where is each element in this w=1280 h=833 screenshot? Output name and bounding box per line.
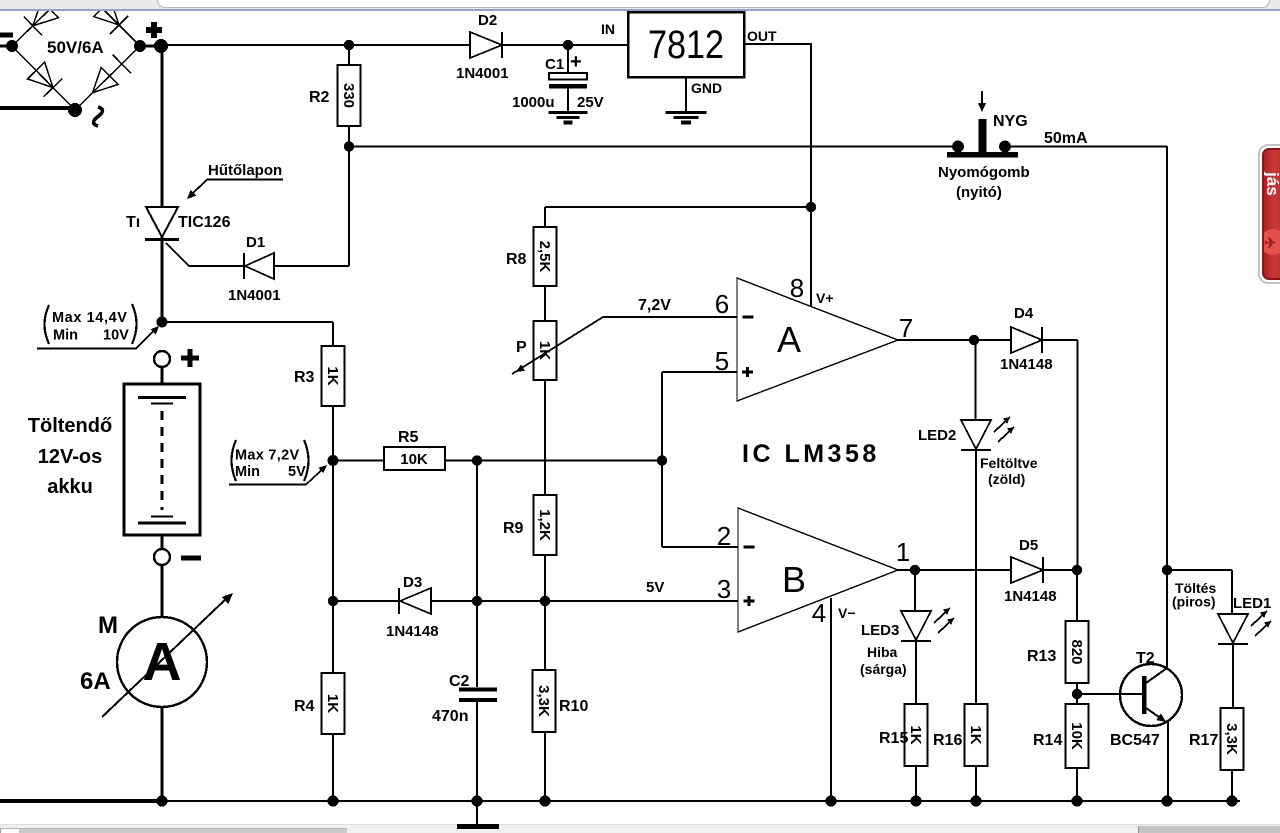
svg-text:C2: C2 [449,673,470,690]
svg-text:Töltendő: Töltendő [28,415,112,437]
svg-text:1N4148: 1N4148 [1004,588,1057,605]
svg-text:1K: 1K [324,366,341,385]
svg-text:1N4001: 1N4001 [228,287,281,304]
svg-text:LED1: LED1 [1233,595,1271,612]
svg-text:C1: C1 [545,56,564,73]
svg-text:(sárga): (sárga) [860,661,907,677]
svg-text:1K: 1K [324,694,341,713]
svg-text:(zöld): (zöld) [988,471,1025,487]
svg-text:50V/6A: 50V/6A [47,38,104,57]
svg-text:Hiba: Hiba [867,644,898,660]
svg-text:7,2V: 7,2V [638,297,671,314]
svg-text:Feltöltve: Feltöltve [980,455,1038,471]
svg-text:R2: R2 [309,89,330,106]
svg-text:A: A [777,319,801,360]
svg-text:NYG: NYG [993,113,1028,130]
svg-text:R17: R17 [1189,732,1218,749]
svg-text:M: M [98,612,118,639]
svg-text:R8: R8 [506,251,527,268]
svg-text:Hűtőlapon: Hűtőlapon [208,162,282,179]
svg-text:Min: Min [53,328,78,344]
svg-text:Tı: Tı [126,214,140,231]
svg-text:1: 1 [896,537,910,567]
svg-text:R16: R16 [933,732,962,749]
svg-text:R13: R13 [1027,648,1056,665]
svg-text:2: 2 [717,521,731,551]
svg-text:Max 7,2V: Max 7,2V [235,448,299,464]
svg-text:8: 8 [790,273,804,303]
svg-text:B: B [782,559,806,600]
svg-text:1,2K: 1,2K [536,509,553,541]
svg-text:4: 4 [812,598,826,628]
svg-text:R9: R9 [503,520,524,537]
svg-text:1N4001: 1N4001 [456,65,509,82]
svg-text:OUT: OUT [747,28,777,44]
svg-text:R4: R4 [294,698,315,715]
svg-text:7812: 7812 [648,23,724,67]
svg-text:2,5K: 2,5K [536,241,553,273]
svg-text:GND: GND [691,80,722,96]
svg-text:R3: R3 [294,369,315,386]
svg-text:50mA: 50mA [1044,130,1088,147]
svg-text:1N4148: 1N4148 [1000,356,1053,373]
svg-text:V+: V+ [816,290,834,306]
svg-text:3,3K: 3,3K [535,685,552,717]
svg-text:25V: 25V [577,94,604,111]
svg-text:10K: 10K [1068,722,1085,750]
svg-text:5V: 5V [646,579,664,596]
svg-text:470n: 470n [432,708,468,725]
svg-text:LED3: LED3 [861,622,899,639]
svg-text:1N4148: 1N4148 [386,623,439,640]
svg-text:P: P [516,339,527,356]
svg-text:820: 820 [1068,639,1085,664]
svg-text:10K: 10K [400,451,428,468]
svg-text:10V: 10V [103,328,129,344]
svg-text:12V-os: 12V-os [38,446,102,468]
svg-text:D2: D2 [478,12,497,29]
svg-text:+: + [570,51,582,73]
svg-text:R10: R10 [559,698,588,715]
svg-text:BC547: BC547 [1110,732,1160,749]
svg-text:6A: 6A [80,668,111,695]
svg-text:Nyomógomb: Nyomógomb [938,164,1030,181]
svg-text:1000u: 1000u [512,94,555,111]
svg-text:7: 7 [899,313,913,343]
svg-text:A: A [143,632,182,692]
svg-text:TIC126: TIC126 [178,214,231,231]
svg-text:LED2: LED2 [918,427,956,444]
svg-text:D3: D3 [403,574,422,591]
svg-text:D5: D5 [1019,537,1038,554]
svg-text:3,3K: 3,3K [1223,723,1240,755]
svg-text:Min: Min [235,464,260,480]
svg-text:5V: 5V [288,464,306,480]
svg-text:IC LM358: IC LM358 [742,440,880,468]
svg-text:6: 6 [715,289,729,319]
svg-text:R15: R15 [879,730,908,747]
svg-text:V−: V− [838,605,856,621]
svg-text:D1: D1 [246,234,265,251]
svg-text:(nyitó): (nyitó) [956,184,1002,201]
svg-text:R14: R14 [1033,732,1062,749]
svg-text:T2: T2 [1136,650,1155,667]
svg-text:330: 330 [340,83,357,108]
svg-text:D4: D4 [1014,305,1034,322]
svg-text:1K: 1K [907,725,924,744]
svg-text:akku: akku [47,476,93,498]
svg-text:(piros): (piros) [1172,594,1216,610]
svg-text:1K: 1K [967,725,984,744]
svg-text:R5: R5 [398,429,419,446]
svg-text:Max 14,4V: Max 14,4V [52,310,128,326]
svg-text:3: 3 [717,574,731,604]
svg-text:IN: IN [601,21,615,37]
